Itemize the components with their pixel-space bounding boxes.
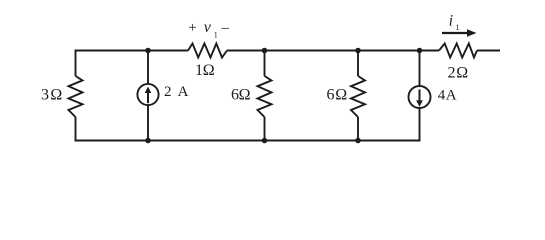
svg-text:6Ω: 6Ω bbox=[327, 87, 348, 104]
svg-text:6Ω: 6Ω bbox=[231, 87, 251, 104]
svg-text:i: i bbox=[449, 12, 453, 29]
svg-text:2Ω: 2Ω bbox=[448, 65, 469, 82]
svg-text:–: – bbox=[221, 20, 230, 36]
node junction dot bottom 2A bbox=[145, 138, 151, 144]
resistor R_6ohm_b 6&#937; vertical zigzag bbox=[351, 76, 365, 117]
wire top rail left segment bbox=[75, 50, 188, 52]
node junction dot top 4A bbox=[417, 48, 423, 54]
wire 6ohm branch 1 lower bbox=[264, 117, 266, 141]
node junction dot top 6ohm 2 bbox=[355, 48, 361, 54]
current source I_4A circle bbox=[409, 86, 431, 108]
resistor R_6ohm_a 6&#937; vertical zigzag bbox=[258, 76, 272, 117]
wire 4A branch lower bbox=[419, 108, 421, 141]
svg-text:1Ω: 1Ω bbox=[195, 62, 215, 79]
svg-text:+: + bbox=[188, 20, 196, 36]
node junction dot bottom 6ohm 1 bbox=[262, 138, 268, 144]
current source I_2A arrow up bbox=[145, 87, 152, 104]
wire 6ohm branch 1 upper bbox=[264, 51, 266, 77]
wire 2A branch upper bbox=[147, 51, 149, 85]
wire top rail right open end bbox=[477, 50, 500, 52]
wire 6ohm branch 2 upper bbox=[357, 51, 359, 77]
resistor R_1ohm 1&#937; horizontal zigzag bbox=[188, 44, 227, 58]
svg-text:1: 1 bbox=[456, 23, 460, 32]
node junction dot top 6ohm 1 bbox=[262, 48, 268, 54]
current source I_2A circle bbox=[137, 84, 158, 105]
wire 4A branch upper bbox=[419, 51, 421, 87]
wire bottom rail bbox=[75, 140, 421, 142]
svg-text:1: 1 bbox=[214, 31, 218, 40]
wire 2A branch lower bbox=[147, 105, 149, 140]
svg-text:4A: 4A bbox=[438, 88, 457, 104]
wire 6ohm branch 2 lower bbox=[357, 117, 359, 141]
current arrow i1 above 2ohm bbox=[442, 29, 477, 37]
svg-text:2A: 2A bbox=[164, 84, 189, 100]
svg-text:3Ω: 3Ω bbox=[41, 87, 62, 104]
svg-text:v: v bbox=[204, 19, 212, 36]
resistor R_2ohm 2&#937; horizontal zigzag bbox=[439, 44, 477, 58]
node junction dot bottom 6ohm 2 bbox=[355, 138, 361, 144]
wire left rail upper bbox=[75, 50, 77, 76]
resistor R_3ohm 3&#937; vertical zigzag bbox=[69, 76, 83, 117]
node junction dot top 2A bbox=[145, 48, 151, 54]
current source I_4A arrow down bbox=[416, 90, 423, 107]
wire left rail lower bbox=[75, 117, 77, 141]
wire top rail middle segment bbox=[227, 50, 439, 52]
